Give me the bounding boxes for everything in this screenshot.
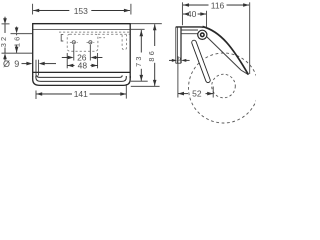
front view: rail inner bottom	[36, 76, 126, 81]
dim 32 top ref	[2, 23, 10, 25]
dim 116 extension right	[249, 2, 251, 74]
svg-text:153: 153	[74, 6, 88, 16]
dim 73 arrow top	[140, 30, 144, 36]
dim 153 arrow left	[33, 9, 39, 13]
dim 32 arrow top	[3, 18, 7, 24]
dim 116 arrow right	[243, 3, 249, 7]
side view: cover top line	[202, 27, 248, 75]
dim 16 arrow bottom	[15, 47, 19, 53]
dim 86 arrow top	[153, 24, 157, 30]
screw hole left	[72, 41, 75, 44]
dim 86 arrow bottom	[153, 80, 157, 86]
dim 48 arrow right	[91, 64, 97, 68]
dim 40 arrow left	[183, 12, 189, 16]
dim dia9 leader line	[22, 63, 29, 65]
rail inner edge extension	[35, 60, 37, 77]
dim 116 line	[183, 4, 209, 6]
dim 26 arrow left	[68, 56, 74, 60]
dim 153 line	[33, 9, 69, 11]
svg-text:141: 141	[74, 89, 88, 99]
dim 52 line	[178, 93, 188, 95]
side view: pivot ring inner	[201, 33, 205, 37]
dim 52 extension left	[177, 56, 179, 97]
dim 73 top ref	[131, 28, 145, 30]
dim 40 extension right	[206, 11, 208, 29]
dim 141 extension left	[35, 90, 37, 99]
svg-text:16: 16	[12, 35, 21, 48]
dim 153 extension right	[130, 4, 132, 15]
dim 16 arrow top	[15, 27, 19, 33]
dim dia9 tail	[43, 63, 56, 65]
side view: roll pin	[194, 43, 208, 81]
screw hole right	[89, 41, 92, 44]
dim 73 arrow bottom	[139, 75, 143, 81]
dim 141 line	[36, 93, 72, 95]
dim 86 line	[154, 24, 156, 46]
svg-text:116: 116	[211, 0, 225, 10]
dim 16 bottom ref	[2, 52, 33, 54]
svg-text:40: 40	[187, 9, 197, 19]
svg-text:52: 52	[192, 89, 202, 99]
front view: right edge	[129, 24, 131, 78]
side view: plate front line	[180, 27, 182, 63]
dim 26 leader left	[62, 56, 69, 58]
dim 153 arrow right	[124, 9, 130, 13]
dim 73 line	[140, 30, 142, 53]
dim 32 arrow bottom	[3, 53, 7, 59]
dim 52 arrow left	[178, 92, 184, 96]
side view: arm underside	[181, 33, 198, 35]
side view: plate inner line	[177, 28, 179, 64]
svg-text:86: 86	[147, 49, 156, 62]
dim 141 extension right	[125, 84, 127, 99]
front view: cover top edge	[32, 23, 131, 25]
dim 52 arrow right	[207, 92, 213, 96]
dim dia9 arrow left-pointing	[39, 62, 45, 66]
hidden dashed line below cover lines	[59, 31, 130, 33]
dim 48 extension right	[97, 53, 99, 68]
side view: arm second line	[181, 29, 198, 31]
side view: cover bottom line	[206, 37, 240, 70]
svg-text:73: 73	[134, 54, 143, 67]
dim 116 extension left	[181, 2, 183, 25]
dim dia9 extension	[38, 60, 40, 76]
side view: roll core dashed circle	[212, 74, 236, 98]
front view: cover second line	[33, 29, 130, 31]
hidden plate-top dashed line right	[98, 33, 130, 35]
dim 52 extension right	[212, 87, 214, 98]
side view: wall line	[175, 27, 177, 64]
svg-text:32: 32	[0, 35, 8, 48]
hidden pin dashed capsule	[122, 35, 126, 50]
dim 26 extension left	[73, 44, 75, 60]
dim 116 arrow left	[183, 3, 189, 7]
hook clip left	[61, 35, 63, 41]
dim 16 line	[16, 27, 18, 29]
dim 86 top ref (top edge extended)	[131, 23, 162, 25]
dim 32 line	[4, 17, 6, 20]
front view: rail lip line	[37, 75, 122, 77]
front view: rail top edge	[33, 71, 130, 73]
dim 26 arrow right	[90, 56, 96, 60]
dim 40 arrow right	[200, 12, 206, 16]
dim 9 plate arrows	[169, 59, 172, 61]
side view: cover tip close	[241, 70, 249, 75]
dim 26 leader right	[96, 56, 103, 58]
dim 26 extension right	[89, 44, 91, 60]
dim 141 arrow right	[120, 92, 126, 96]
svg-text:48: 48	[78, 61, 88, 71]
dim 48 arrow left	[67, 64, 73, 68]
side view: plate bottom	[176, 62, 181, 64]
svg-text:Ø 9: Ø 9	[3, 59, 20, 69]
side view: roll large dashed circle	[188, 53, 258, 123]
dim 48 extension left	[66, 53, 68, 68]
dim 141 arrow left	[36, 92, 42, 96]
dim 16 top ref	[11, 33, 33, 35]
dim 86 bottom ref	[131, 85, 160, 87]
side view: arm top edge	[176, 26, 204, 28]
mounting plate dashed outline	[67, 34, 98, 51]
dim 73 bottom ref	[131, 80, 148, 82]
front view: rail outer bottom	[33, 76, 131, 85]
side view: pivot ring outer	[198, 30, 207, 39]
front view: left edge	[32, 24, 34, 77]
dim dia9 arrow right-pointing	[26, 62, 32, 66]
dim 48 line	[67, 64, 74, 66]
dim 40 line	[183, 13, 186, 15]
dim 153 extension left	[32, 4, 34, 15]
hidden arm dashes	[99, 37, 105, 39]
